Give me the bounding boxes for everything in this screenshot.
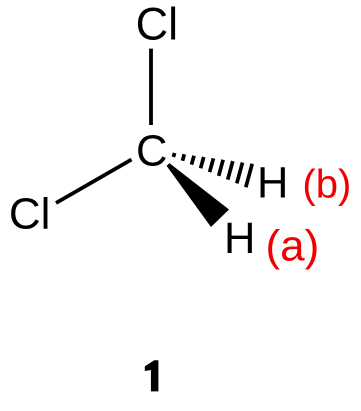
- svg-text:(a): (a): [266, 222, 320, 271]
- label (b) red: [302, 163, 351, 207]
- compound number 1 (bold digit drawn as path): [145, 360, 159, 391]
- svg-text:C: C: [136, 128, 167, 176]
- bond Cl(top)-C (vertical wire): [149, 49, 153, 125]
- svg-text:Cl: Cl: [136, 0, 179, 50]
- atom label H (a hydrogen): [224, 215, 255, 263]
- solid wedge bond C-H(a): [167, 163, 229, 227]
- atom label Cl (top): [136, 0, 179, 50]
- hashed wedge bond C-H(b): [173, 153, 252, 187]
- svg-text:H: H: [257, 160, 288, 208]
- label (a) red: [266, 222, 320, 271]
- atom label C (central): [136, 128, 167, 176]
- svg-text:H: H: [224, 215, 255, 263]
- bond Cl(left)-C (diagonal wire): [56, 160, 132, 204]
- atom label H (b hydrogen): [257, 160, 288, 208]
- svg-text:Cl: Cl: [9, 190, 51, 239]
- atom label Cl (left): [9, 190, 51, 239]
- svg-text:(b): (b): [302, 163, 351, 207]
